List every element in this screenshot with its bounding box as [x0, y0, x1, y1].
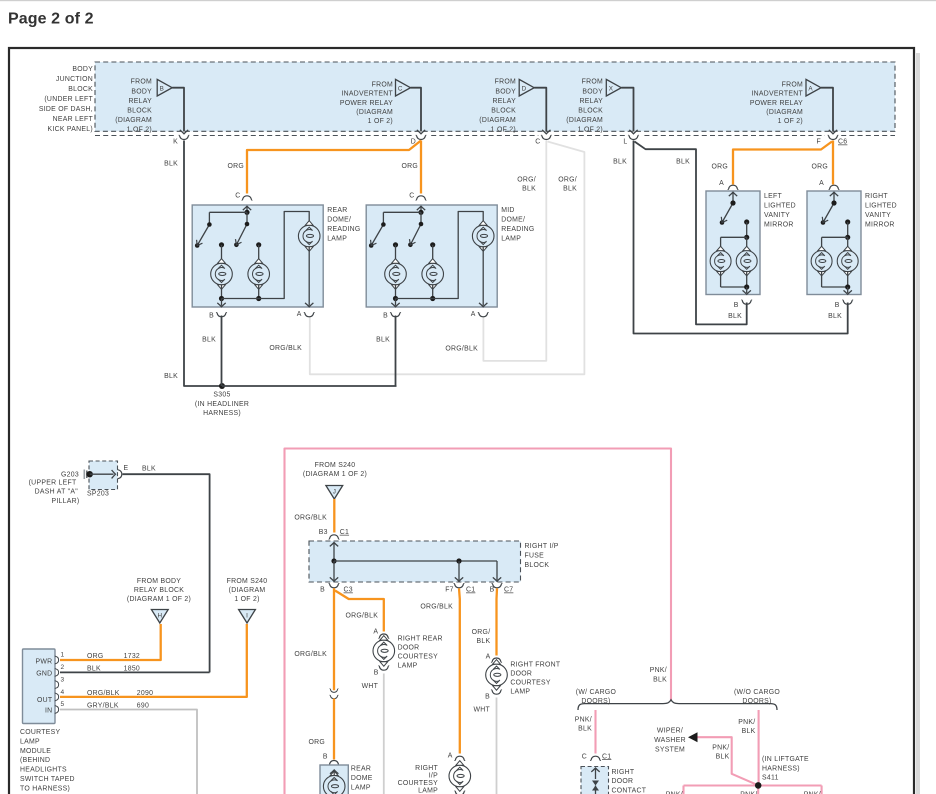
- svg-text:F7: F7: [445, 587, 454, 594]
- svg-text:WIPER/: WIPER/: [657, 728, 683, 735]
- svg-text:5: 5: [61, 701, 65, 708]
- svg-text:PNK/: PNK/: [738, 719, 755, 726]
- svg-text:1 OF 2): 1 OF 2): [778, 118, 803, 125]
- svg-text:LEFT: LEFT: [764, 193, 782, 200]
- svg-text:1732: 1732: [124, 653, 140, 660]
- svg-text:(DIAGRAM 1 OF 2): (DIAGRAM 1 OF 2): [127, 596, 191, 603]
- svg-text:BLK: BLK: [202, 337, 216, 344]
- svg-text:FROM: FROM: [582, 79, 603, 86]
- svg-text:A: A: [819, 180, 824, 187]
- svg-text:A: A: [719, 180, 724, 187]
- svg-text:VANITY: VANITY: [865, 212, 891, 219]
- svg-text:GND: GND: [36, 671, 52, 678]
- svg-text:LAMP: LAMP: [20, 738, 40, 745]
- svg-text:LIGHTED: LIGHTED: [865, 202, 897, 209]
- svg-text:BLK: BLK: [563, 185, 577, 192]
- svg-text:COURTESY: COURTESY: [20, 729, 61, 736]
- svg-text:BODY: BODY: [72, 66, 93, 73]
- svg-text:BLK: BLK: [142, 466, 156, 473]
- svg-text:C: C: [582, 753, 587, 760]
- svg-text:MIRROR: MIRROR: [764, 222, 794, 229]
- svg-text:A: A: [373, 629, 378, 636]
- svg-text:FROM: FROM: [131, 79, 152, 86]
- svg-text:INADVERTENT: INADVERTENT: [751, 91, 803, 98]
- svg-text:HARNESS): HARNESS): [762, 765, 800, 772]
- svg-text:BLOCK: BLOCK: [68, 86, 93, 93]
- svg-text:OUT: OUT: [37, 697, 53, 704]
- svg-text:DOORS): DOORS): [581, 698, 610, 705]
- svg-text:ORG/BLK: ORG/BLK: [346, 613, 379, 620]
- svg-text:ORG/BLK: ORG/BLK: [445, 346, 478, 353]
- svg-text:(BEHIND: (BEHIND: [20, 757, 50, 764]
- svg-text:BLOCK: BLOCK: [578, 108, 603, 115]
- svg-text:ORG/BLK: ORG/BLK: [269, 345, 302, 352]
- svg-text:I/P: I/P: [429, 773, 438, 780]
- svg-text:RIGHT I/P: RIGHT I/P: [525, 543, 559, 550]
- svg-text:HARNESS): HARNESS): [203, 410, 241, 417]
- svg-text:LIGHTED: LIGHTED: [764, 202, 796, 209]
- svg-text:VANITY: VANITY: [764, 212, 790, 219]
- svg-text:1850: 1850: [124, 666, 140, 673]
- svg-text:C1: C1: [340, 529, 349, 536]
- svg-text:(IN HEADLINER: (IN HEADLINER: [195, 401, 249, 408]
- svg-text:LAMP: LAMP: [510, 689, 530, 696]
- svg-text:FROM BODY: FROM BODY: [137, 578, 181, 585]
- svg-text:RELAY BLOCK: RELAY BLOCK: [134, 587, 184, 594]
- svg-text:ORG: ORG: [308, 739, 325, 746]
- svg-text:C1: C1: [602, 753, 611, 760]
- svg-text:SP203: SP203: [87, 491, 109, 498]
- svg-text:RELAY: RELAY: [493, 98, 517, 105]
- svg-text:KICK PANEL): KICK PANEL): [48, 126, 93, 133]
- svg-text:DOME/: DOME/: [327, 216, 351, 223]
- svg-text:BLOCK: BLOCK: [491, 108, 516, 115]
- svg-text:ORG/BLK: ORG/BLK: [87, 690, 120, 697]
- svg-text:CONTACT: CONTACT: [612, 788, 647, 794]
- svg-text:C: C: [535, 139, 540, 146]
- svg-text:ORG: ORG: [87, 653, 104, 660]
- svg-text:RIGHT REAR: RIGHT REAR: [398, 635, 443, 642]
- svg-text:DOME/: DOME/: [501, 216, 525, 223]
- svg-text:BLK: BLK: [87, 666, 101, 673]
- svg-text:SWITCH TAPED: SWITCH TAPED: [20, 776, 75, 783]
- svg-text:BLK: BLK: [164, 161, 178, 168]
- svg-text:Page 2 of 2: Page 2 of 2: [8, 11, 94, 28]
- svg-text:J: J: [333, 489, 336, 496]
- svg-text:(DIAGRAM: (DIAGRAM: [115, 117, 152, 124]
- svg-text:WHT: WHT: [362, 683, 379, 690]
- svg-text:C1: C1: [466, 587, 475, 594]
- svg-text:LAMP: LAMP: [327, 235, 347, 242]
- svg-text:BLK: BLK: [578, 726, 592, 733]
- svg-text:I: I: [246, 613, 248, 620]
- svg-text:BLOCK: BLOCK: [127, 108, 152, 115]
- svg-text:FROM S240: FROM S240: [315, 462, 356, 469]
- svg-text:ORG: ORG: [401, 163, 418, 170]
- svg-text:BLK: BLK: [728, 313, 742, 320]
- svg-text:ORG/: ORG/: [558, 176, 577, 183]
- svg-text:C7: C7: [504, 587, 513, 594]
- svg-text:BLOCK: BLOCK: [525, 562, 550, 569]
- svg-text:COURTESY: COURTESY: [510, 680, 551, 687]
- svg-text:PWR: PWR: [35, 658, 52, 665]
- svg-text:DASH AT "A": DASH AT "A": [35, 489, 79, 496]
- svg-text:B: B: [323, 754, 328, 761]
- svg-text:(DIAGRAM: (DIAGRAM: [356, 109, 393, 116]
- svg-text:B: B: [383, 313, 388, 320]
- svg-text:DOOR: DOOR: [398, 644, 420, 651]
- svg-text:WASHER: WASHER: [654, 737, 686, 744]
- svg-text:(DIAGRAM: (DIAGRAM: [566, 117, 603, 124]
- svg-text:IN: IN: [45, 708, 52, 715]
- svg-text:1 OF 2): 1 OF 2): [491, 127, 516, 134]
- svg-text:TO HARNESS): TO HARNESS): [20, 785, 70, 792]
- svg-text:B: B: [490, 587, 495, 594]
- svg-text:DOOR: DOOR: [510, 670, 532, 677]
- svg-text:A: A: [448, 753, 453, 760]
- svg-text:DOOR: DOOR: [612, 778, 634, 785]
- svg-text:BLK: BLK: [164, 373, 178, 380]
- svg-text:WHT: WHT: [473, 706, 490, 713]
- svg-text:DOORS): DOORS): [742, 698, 771, 705]
- svg-text:PNK/: PNK/: [712, 745, 729, 752]
- svg-text:MODULE: MODULE: [20, 748, 51, 755]
- svg-text:POWER RELAY: POWER RELAY: [340, 100, 393, 107]
- svg-text:L: L: [623, 139, 627, 146]
- svg-text:PNK/: PNK/: [650, 667, 667, 674]
- svg-text:HEADLIGHTS: HEADLIGHTS: [20, 767, 67, 774]
- svg-text:(W/ CARGO: (W/ CARGO: [576, 689, 617, 696]
- svg-text:POWER RELAY: POWER RELAY: [750, 100, 803, 107]
- svg-text:BLK: BLK: [477, 638, 491, 645]
- svg-text:690: 690: [137, 703, 149, 710]
- svg-text:1 OF 2): 1 OF 2): [127, 127, 152, 134]
- svg-text:(DIAGRAM 1 OF 2): (DIAGRAM 1 OF 2): [303, 471, 367, 478]
- svg-text:FUSE: FUSE: [525, 553, 545, 560]
- svg-text:BLK: BLK: [653, 676, 667, 683]
- svg-text:C: C: [409, 193, 414, 200]
- svg-text:COURTESY: COURTESY: [398, 780, 439, 787]
- svg-text:(UPPER LEFT: (UPPER LEFT: [29, 480, 77, 487]
- svg-text:(DIAGRAM: (DIAGRAM: [766, 109, 803, 116]
- svg-text:RIGHT: RIGHT: [415, 765, 438, 772]
- svg-text:MID: MID: [501, 207, 514, 214]
- svg-text:BODY: BODY: [582, 88, 603, 95]
- svg-text:PNK/: PNK/: [575, 716, 592, 723]
- svg-text:ORG/BLK: ORG/BLK: [420, 604, 453, 611]
- svg-text:2: 2: [61, 664, 65, 671]
- svg-text:B: B: [209, 313, 214, 320]
- svg-text:1 OF 2): 1 OF 2): [578, 127, 603, 134]
- svg-text:1 OF 2): 1 OF 2): [234, 596, 259, 603]
- svg-text:RELAY: RELAY: [129, 98, 153, 105]
- svg-text:B: B: [734, 302, 739, 309]
- svg-text:LAMP: LAMP: [351, 784, 371, 791]
- svg-text:C: C: [235, 193, 240, 200]
- svg-text:C3: C3: [344, 587, 353, 594]
- svg-text:A: A: [471, 311, 476, 318]
- svg-text:GRY/BLK: GRY/BLK: [87, 703, 119, 710]
- svg-text:ORG: ORG: [711, 164, 728, 171]
- svg-text:ORG/: ORG/: [472, 629, 491, 636]
- svg-text:ORG: ORG: [227, 163, 244, 170]
- svg-text:BLK: BLK: [376, 337, 390, 344]
- svg-text:(UNDER LEFT: (UNDER LEFT: [44, 96, 93, 103]
- svg-text:C6: C6: [838, 139, 847, 146]
- svg-text:(DIAGRAM: (DIAGRAM: [229, 587, 266, 594]
- svg-text:PILLAR): PILLAR): [51, 498, 79, 505]
- svg-text:FROM: FROM: [372, 82, 393, 89]
- svg-text:B: B: [160, 85, 164, 92]
- svg-text:RIGHT: RIGHT: [865, 193, 888, 200]
- svg-text:NEAR LEFT: NEAR LEFT: [53, 116, 94, 123]
- svg-text:4: 4: [61, 689, 65, 696]
- svg-text:READING: READING: [501, 226, 534, 233]
- svg-text:INADVERTENT: INADVERTENT: [341, 91, 393, 98]
- svg-text:BLK: BLK: [522, 185, 536, 192]
- svg-text:1: 1: [61, 652, 65, 659]
- svg-text:SYSTEM: SYSTEM: [655, 746, 685, 753]
- svg-text:G203: G203: [61, 471, 79, 478]
- svg-text:B3: B3: [319, 529, 328, 536]
- svg-text:(W/O CARGO: (W/O CARGO: [734, 689, 780, 696]
- svg-text:JUNCTION: JUNCTION: [56, 76, 93, 83]
- svg-text:BLK: BLK: [676, 159, 690, 166]
- svg-text:A: A: [297, 311, 302, 318]
- svg-text:K: K: [173, 139, 178, 146]
- svg-text:COURTESY: COURTESY: [398, 654, 439, 661]
- svg-text:REAR: REAR: [351, 766, 371, 773]
- svg-text:S305: S305: [213, 392, 230, 399]
- svg-text:(IN LIFTGATE: (IN LIFTGATE: [762, 756, 809, 763]
- svg-text:S411: S411: [762, 775, 779, 782]
- svg-text:FROM: FROM: [782, 82, 803, 89]
- svg-text:LAMP: LAMP: [418, 788, 438, 794]
- svg-text:C: C: [398, 85, 403, 92]
- svg-text:FROM S240: FROM S240: [227, 578, 268, 585]
- svg-text:DOME: DOME: [351, 775, 373, 782]
- svg-text:B: B: [320, 587, 325, 594]
- svg-text:MIRROR: MIRROR: [865, 222, 895, 229]
- svg-text:SIDE OF DASH,: SIDE OF DASH,: [39, 106, 93, 113]
- svg-text:REAR: REAR: [327, 207, 347, 214]
- svg-text:BLK: BLK: [742, 728, 756, 735]
- svg-text:ORG/BLK: ORG/BLK: [294, 651, 327, 658]
- svg-text:ORG/BLK: ORG/BLK: [294, 515, 327, 522]
- svg-text:FROM: FROM: [495, 79, 516, 86]
- svg-text:H: H: [158, 613, 163, 620]
- svg-text:B: B: [835, 302, 840, 309]
- svg-text:RELAY: RELAY: [580, 98, 604, 105]
- svg-text:3: 3: [61, 676, 65, 683]
- svg-text:B: B: [485, 693, 490, 700]
- svg-text:BLK: BLK: [828, 313, 842, 320]
- svg-text:(DIAGRAM: (DIAGRAM: [479, 117, 516, 124]
- svg-text:1 OF 2): 1 OF 2): [368, 118, 393, 125]
- svg-text:RIGHT FRONT: RIGHT FRONT: [510, 661, 561, 668]
- svg-text:BLK: BLK: [613, 159, 627, 166]
- svg-text:LAMP: LAMP: [398, 663, 418, 670]
- svg-text:B: B: [374, 670, 379, 677]
- svg-text:2090: 2090: [137, 690, 153, 697]
- svg-text:ORG/: ORG/: [517, 176, 536, 183]
- svg-text:READING: READING: [327, 226, 360, 233]
- svg-text:BODY: BODY: [131, 88, 152, 95]
- svg-text:A: A: [486, 654, 491, 661]
- svg-text:BLK: BLK: [716, 754, 730, 761]
- svg-text:LAMP: LAMP: [501, 235, 521, 242]
- svg-text:ORG: ORG: [811, 164, 828, 171]
- svg-text:D: D: [522, 85, 527, 92]
- svg-text:RIGHT: RIGHT: [612, 769, 635, 776]
- svg-text:BODY: BODY: [495, 88, 516, 95]
- svg-text:E: E: [124, 465, 129, 472]
- svg-text:F: F: [817, 139, 822, 146]
